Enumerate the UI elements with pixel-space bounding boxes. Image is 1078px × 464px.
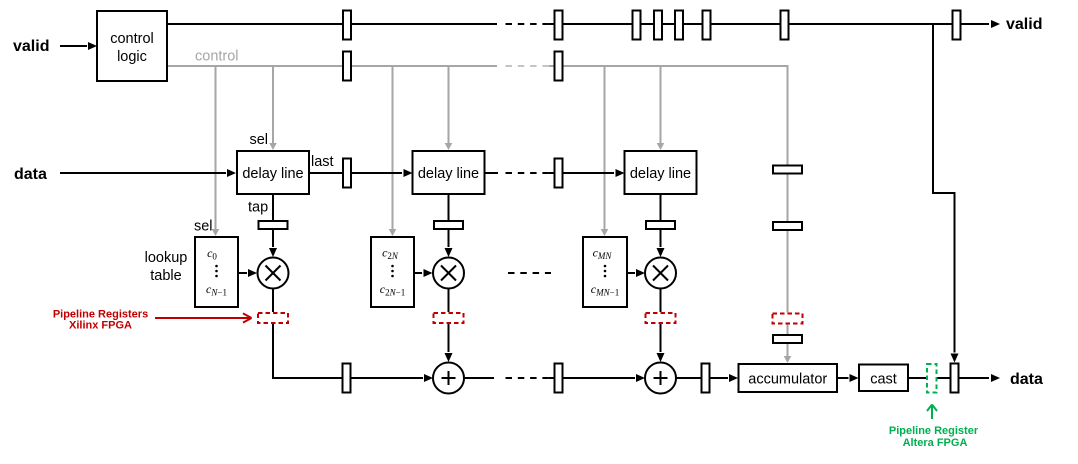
register on valid line after dashes <box>555 11 563 40</box>
wire: tap from delay line 1 to multiplier 1 <box>269 194 277 257</box>
label: data input <box>14 166 47 183</box>
wire: sel drop to lookup table 1 <box>212 66 220 236</box>
wire: cast to output registers <box>908 377 950 379</box>
wire: delay line 2 to delay line 3 with continuation dashes <box>485 169 625 177</box>
register on control line after control logic <box>343 52 351 81</box>
wire: data input arrow <box>60 169 236 177</box>
annotation: Pipeline Registers Xilinx FPGA <box>53 309 148 332</box>
wire: accumulator to cast <box>837 374 859 382</box>
svg-text:control: control <box>110 31 154 47</box>
svg-text:delay line: delay line <box>630 166 691 182</box>
svg-text:Pipeline Register: Pipeline Register <box>889 425 979 437</box>
svg-text:accumulator: accumulator <box>748 372 827 388</box>
cast <box>859 365 908 392</box>
wire: tap from delay line 2 to multiplier 2 <box>445 194 453 257</box>
pipeline register (green dashed) at output <box>926 363 938 394</box>
register on accumulator control drop middle <box>773 222 802 230</box>
register cluster 4 on valid line <box>703 11 711 40</box>
delay line 3 <box>625 151 697 194</box>
register on data line after dashes <box>555 159 563 188</box>
svg-text:logic: logic <box>117 49 147 65</box>
wire: control net from control logic (gray horizontal) <box>167 66 791 363</box>
label: data output <box>1010 371 1043 388</box>
tap register column 2 <box>434 221 463 229</box>
wire: multiplier 2 product down to adder 2 <box>445 289 453 363</box>
wire: lookup table 2 to multiplier 2 <box>414 269 433 277</box>
svg-text:delay line: delay line <box>418 166 479 182</box>
svg-text:delay line: delay line <box>242 166 303 182</box>
label: control net <box>195 49 239 65</box>
wire: multiplier 1 product down and right to adder 2 <box>273 289 433 383</box>
label: lookup table <box>145 250 188 284</box>
wire: sel drop to delay line 1 <box>269 66 277 150</box>
wire: lookup table 1 to multiplier 1 <box>238 269 257 277</box>
delay line 1 <box>237 151 309 194</box>
register on control line after dashes <box>555 52 563 81</box>
pipeline register (red dashed) on accumulator drop <box>772 313 804 325</box>
wire: valid branch down to data output register <box>933 24 959 363</box>
register on valid line after control logic <box>343 11 351 40</box>
svg-text:table: table <box>150 268 181 284</box>
wire: sel drop to delay line 2 <box>445 66 453 150</box>
wire: multiplier 3 product down to adder 3 <box>657 289 665 363</box>
adder 2 <box>433 363 464 394</box>
lookup table 2 <box>371 237 414 307</box>
svg-text:cast: cast <box>870 372 897 388</box>
tap register column 1 <box>259 221 288 229</box>
multiplier 3 <box>645 258 676 289</box>
svg-text:valid: valid <box>1006 16 1042 33</box>
multiplier 1 <box>258 258 289 289</box>
register on product line column 1 <box>343 364 351 393</box>
pipeline register (red dashed) column 2 <box>433 312 465 324</box>
wire: adder 2 to adder 3 with continuation dashes <box>464 374 645 382</box>
wire: data output arrow <box>959 374 1001 382</box>
svg-text:lookup: lookup <box>145 250 188 266</box>
register on accumulator control drop lower <box>773 335 802 343</box>
adder 3 <box>645 363 676 394</box>
accumulator <box>739 364 838 392</box>
register on adder line after dashes <box>555 364 563 393</box>
control logic U1 <box>97 11 167 81</box>
svg-text:data: data <box>14 166 47 183</box>
tap register column 3 <box>646 221 675 229</box>
svg-text:sel: sel <box>249 132 268 148</box>
register cluster 1 on valid line <box>633 11 641 40</box>
wire: sel drop to lookup table 2 <box>389 66 397 236</box>
lookup table 1 <box>195 237 238 307</box>
label: sel (lookup table 1) <box>194 219 213 235</box>
register last (data line after delay line 1) <box>343 159 351 188</box>
wire: adder 3 to accumulator <box>676 374 738 382</box>
label: valid input <box>13 38 49 55</box>
wire: valid line from control logic <box>167 20 1000 28</box>
svg-text:Xilinx FPGA: Xilinx FPGA <box>69 320 132 332</box>
svg-text:Altera FPGA: Altera FPGA <box>903 437 968 449</box>
wire: tap from delay line 3 to multiplier 3 <box>657 194 665 257</box>
lookup table 3 <box>583 237 627 307</box>
label: sel (delay line 1) <box>249 132 268 148</box>
wire: sel drop to delay line 3 <box>657 66 665 150</box>
svg-text:control: control <box>195 49 239 65</box>
label: last <box>311 154 334 170</box>
pipeline register (red dashed) column 1 <box>257 312 289 324</box>
multiplier 2 <box>433 258 464 289</box>
wire: lookup table 3 to multiplier 3 <box>627 269 645 277</box>
label: valid output <box>1006 16 1042 33</box>
register after adder 3 <box>702 364 710 393</box>
register on accumulator control drop upper <box>773 166 802 174</box>
svg-text:tap: tap <box>248 200 268 216</box>
register cluster 2 on valid line <box>654 11 662 40</box>
register on valid line near branch <box>781 11 789 40</box>
wire: valid input arrow <box>60 42 97 50</box>
register at data output <box>951 364 959 393</box>
pipeline register (red dashed) column 3 <box>645 312 677 324</box>
svg-text:last: last <box>311 154 334 170</box>
delay line 2 <box>413 151 485 194</box>
svg-text:sel: sel <box>194 219 213 235</box>
wire: last from delay line 1 to delay line 2 <box>309 169 413 177</box>
wire: sel drop to lookup table 3 <box>601 66 609 236</box>
register on valid line at output <box>953 11 961 40</box>
annotation: green arrow to pipeline register <box>927 405 937 420</box>
svg-text:data: data <box>1010 371 1043 388</box>
annotation: Pipeline Register Altera FPGA <box>889 425 979 449</box>
annotation: red arrow to pipeline register <box>155 313 252 322</box>
wire: multiplier row continuation dashes <box>508 272 551 274</box>
register cluster 3 on valid line <box>675 11 683 40</box>
svg-text:valid: valid <box>13 38 49 55</box>
label: tap <box>248 200 268 216</box>
